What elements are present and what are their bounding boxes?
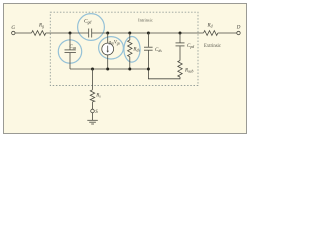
- wire Rd to D: [218, 32, 237, 34]
- svg-text:Intrinsic: Intrinsic: [138, 18, 153, 23]
- capacitor Cgd (series, vertical plates): [88, 29, 90, 38]
- intrinsic dashed box: [50, 12, 198, 85]
- resistor Rd: [204, 31, 218, 36]
- capacitor Cpd branch: [179, 33, 181, 43]
- wire Rs to S terminal: [92, 102, 94, 109]
- svg-text:D: D: [236, 26, 241, 31]
- svg-text:Extrinsic: Extrinsic: [204, 44, 221, 49]
- node at gm source top: [106, 32, 109, 35]
- node at gm source bottom: [106, 68, 109, 71]
- node at rail right corner: [147, 68, 150, 71]
- svg-text:Cpd: Cpd: [187, 44, 194, 49]
- node at Cgs tap: [69, 32, 72, 35]
- terminal G: [12, 31, 15, 34]
- resistor Rg: [32, 31, 46, 36]
- wire Rg to Cgd: [46, 32, 89, 34]
- resistor Rds branch: [129, 33, 131, 40]
- svg-text:Rg: Rg: [38, 24, 44, 29]
- node at Cpd tap: [179, 32, 182, 35]
- terminal D: [237, 31, 240, 34]
- capacitor Cds branch: [147, 33, 149, 47]
- svg-text:Rd: Rd: [207, 23, 213, 28]
- current source gmVgs branch: [107, 33, 109, 43]
- svg-text:gmVgs: gmVgs: [109, 41, 121, 46]
- blue ellipse around gmVgs source: [99, 37, 124, 59]
- wire S to ground: [92, 113, 94, 120]
- svg-text:Cds: Cds: [155, 48, 162, 53]
- blue circle around Cgd: [78, 14, 105, 41]
- bottom rail wire: [70, 68, 148, 70]
- svg-text:Rsub: Rsub: [184, 68, 193, 73]
- ground: [87, 119, 98, 121]
- node at Rds top: [128, 32, 131, 35]
- figure background panel: [0, 0, 250, 137]
- terminal S: [91, 109, 95, 113]
- node at Cds top: [147, 32, 150, 35]
- node at Rds bottom: [128, 68, 131, 71]
- blue ellipse around Rds: [124, 37, 140, 63]
- wire Rsub bottom to rail corner: [148, 69, 180, 79]
- svg-text:Rds: Rds: [132, 47, 140, 52]
- svg-text:G: G: [11, 26, 15, 31]
- svg-text:Rs: Rs: [95, 94, 101, 99]
- node at Rs tap: [91, 68, 94, 71]
- resistor Rsub: [178, 61, 182, 78]
- capacitor Cgs branch: [69, 33, 71, 50]
- svg-text:Cgs: Cgs: [69, 45, 76, 50]
- wire Cgd to Rd: [92, 32, 204, 34]
- wire G to Rg: [15, 32, 32, 34]
- blue circle around Cgs: [58, 40, 81, 63]
- wire rail to Rs: [92, 69, 94, 90]
- resistor Rs: [90, 90, 94, 102]
